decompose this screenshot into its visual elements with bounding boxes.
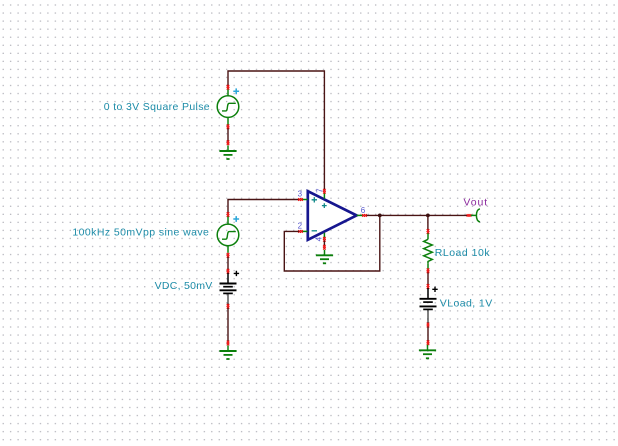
node x: ground 3 terminal [323, 245, 326, 250]
ground 3 [316, 250, 333, 263]
wire: top rail from VG1 top to op-amp pin 7 [228, 71, 324, 190]
node x: RLoad top terminal [427, 229, 430, 234]
plus mark of VLoad [432, 287, 437, 292]
node x: VDC top terminal [227, 269, 230, 274]
op-amp U1 [308, 191, 357, 240]
op-amp supply plus mark [322, 203, 327, 208]
op-amp plus input mark [312, 197, 317, 202]
junction: load tap [426, 214, 430, 218]
ground 4 [419, 345, 436, 359]
plus mark of VDC [234, 271, 239, 276]
wire: VDC to ground [227, 308, 229, 341]
svg-text:4: 4 [314, 236, 323, 241]
svg-text:VLoad, 1V: VLoad, 1V [440, 298, 493, 310]
node x: VG2 bottom terminal [227, 253, 230, 258]
pin 3 stub [302, 199, 308, 201]
svg-text:100kHz 50mVpp sine wave: 100kHz 50mVpp sine wave [72, 227, 209, 239]
wire: VLoad to ground [427, 327, 429, 342]
plus mark of VG2 [233, 216, 239, 222]
ground 2 [219, 346, 236, 360]
node x: VDC bottom terminal [227, 304, 230, 309]
pin 6 stub [357, 214, 363, 216]
node x: VLoad bottom terminal [427, 323, 430, 328]
svg-text:RLoad 10k: RLoad 10k [435, 247, 491, 259]
battery VDC, 50mV [220, 273, 237, 305]
battery VLoad, 1V [420, 288, 437, 323]
wire: feedback loop to pin 2 [284, 215, 380, 271]
wire: VG1 to ground [227, 128, 229, 141]
wire: junction down to RLoad [427, 215, 429, 229]
node x: ground 2 terminal [227, 341, 230, 346]
svg-text:6: 6 [361, 206, 366, 215]
pin 7 stub [323, 193, 325, 199]
wire: RLoad to VLoad [427, 273, 429, 285]
pin 4 stub [323, 233, 325, 238]
wire: pin 4 to ground [323, 241, 325, 246]
voltage source VG1 (0 to 3V Square Pulse) [217, 90, 239, 126]
svg-text:0 to 3V Square Pulse: 0 to 3V Square Pulse [104, 101, 210, 113]
junction: feedback tap [378, 214, 382, 218]
plus mark of VG1 [233, 88, 239, 94]
op-amp minus input mark [312, 230, 317, 232]
wire: output to Vout [367, 214, 468, 216]
Vout tag [471, 209, 480, 222]
svg-text:2: 2 [298, 222, 303, 231]
node x: VLoad top terminal [427, 284, 430, 289]
svg-text:VDC, 50mV: VDC, 50mV [155, 280, 213, 292]
voltage source VG2 (100kHz 50mVpp sine wave) [217, 217, 239, 253]
node x: VG2 top terminal [227, 212, 230, 217]
ground 1 [219, 146, 236, 160]
node x: VG1 top terminal [227, 85, 230, 90]
node x: ground 1 terminal [227, 140, 230, 145]
svg-text:3: 3 [298, 190, 303, 199]
node x: Vout tag terminal [467, 214, 472, 217]
wire: VG2 to VDC [227, 257, 229, 270]
svg-text:Vout: Vout [463, 197, 488, 209]
resistor RLoad [424, 233, 433, 269]
node x: ground 4 terminal [427, 340, 430, 345]
svg-text:7: 7 [315, 188, 324, 193]
node x: RLoad bottom terminal [427, 268, 430, 273]
node x: VG1 bottom terminal [227, 124, 230, 129]
pin 2 stub [302, 230, 308, 232]
wire: VG2 top to op-amp pin 3 [228, 200, 299, 213]
